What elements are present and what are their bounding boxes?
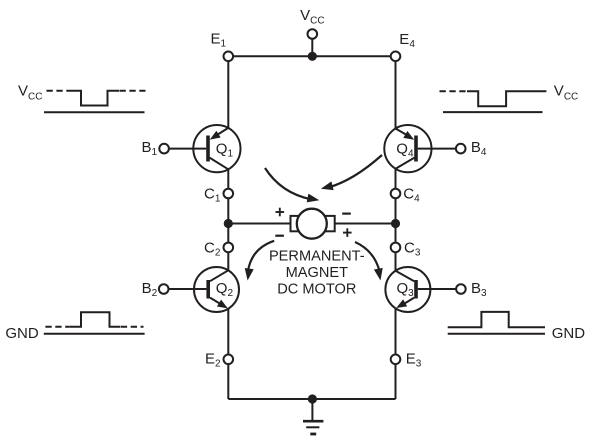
wire E2 to bottom rail [227,364,229,399]
wire top rail [233,55,391,57]
wire motor right [335,223,396,225]
transistor Q3 [385,267,430,312]
wire C2 to Q2 [227,252,229,270]
waveform VCC top-right pulse [467,91,546,106]
svg-text:E3: E3 [406,350,422,369]
wire E4 to Q4 [395,61,397,128]
svg-text:C2: C2 [204,239,221,258]
svg-text:Q1: Q1 [216,140,234,159]
waveform VCC top-left dashed high left [47,90,73,92]
waveform VCC top-right dashed high left [440,90,468,92]
svg-text:GND: GND [5,325,39,342]
waveform GND bottom-left baseline [44,333,145,335]
terminal B3 [456,284,466,294]
transistor Q2 [194,267,239,312]
wire C3 to Q3 [395,252,397,271]
wire Q4 to C4 [395,169,397,189]
waveform VCC top-left pulse [72,91,119,106]
svg-text:B1: B1 [142,139,158,158]
wire C1 to node A [227,198,229,223]
waveform GND bottom-left dashed low left [45,326,69,328]
waveform VCC top-left baseline [44,111,145,113]
wire ground stub [311,399,313,420]
terminal VCC [308,29,318,39]
wire base B2 [169,288,207,290]
arrow arc top-left flow [265,168,311,199]
wire bottom rail [228,398,395,400]
waveform GND bottom-left pulse [70,312,121,327]
motor brush left [291,216,301,231]
terminal B2 [159,284,169,294]
wire base B3 [418,288,456,290]
arrow arc top-right flow [329,155,382,187]
terminal E3 [391,355,401,365]
ground [303,421,323,434]
wire E1 to Q1 [227,61,229,128]
svg-text:VCC: VCC [554,83,578,103]
motor brush right [325,216,335,231]
svg-text:E1: E1 [211,31,227,50]
wire motor left [228,223,290,225]
motor M1 body [297,209,327,239]
terminal B1 [159,144,169,154]
svg-text:Q2: Q2 [216,280,234,299]
svg-text:C3: C3 [404,239,421,258]
label plus bottom-right [343,228,352,237]
terminal E1 [224,52,234,62]
junction node B motor right [391,219,400,228]
junction bottom rail [308,394,317,403]
terminal B4 [456,144,466,154]
transistor Q1 [193,125,240,172]
svg-text:C4: C4 [403,186,420,205]
svg-text:PERMANENT-: PERMANENT- [269,249,365,265]
waveform VCC top-right baseline [443,111,543,113]
svg-text:DC MOTOR: DC MOTOR [277,281,356,297]
wire Q1 to C1 [227,169,229,188]
svg-text:E4: E4 [399,31,415,50]
wire VCC stub [311,39,313,57]
waveform GND bottom-left dashed low right [121,326,144,328]
terminal C3 [391,243,401,253]
svg-text:Q4: Q4 [396,140,414,159]
svg-text:B4: B4 [471,139,487,158]
svg-text:C1: C1 [204,186,221,205]
terminal E4 [391,52,401,62]
svg-text:VCC: VCC [18,83,42,103]
arrow arc bottom-right flow [355,242,380,271]
label minus bottom-left [275,235,284,237]
waveform GND bottom-right pulse [448,312,545,327]
terminal C1 [224,189,234,199]
arrow arc bottom-left flow [248,241,274,271]
wire Q2 to E2 [227,309,229,355]
terminal E2 [224,355,234,365]
transistor Q4 [384,125,431,172]
svg-text:Q3: Q3 [397,280,415,299]
waveform VCC top-left dashed high right [120,90,146,92]
junction node A motor left [224,219,233,228]
terminal C2 [224,243,234,253]
svg-text:E2: E2 [205,350,221,369]
junction top rail [308,52,317,61]
wire node B to C3 [395,224,397,243]
waveform GND bottom-right baseline [448,333,545,335]
wire base B4 [418,148,456,150]
terminal C4 [391,189,401,199]
label minus top-right [342,213,351,215]
wire Q3 to E3 [395,308,397,354]
wire node A to C2 [227,224,229,243]
svg-text:VCC: VCC [300,7,324,27]
svg-text:B2: B2 [142,280,158,299]
label plus top-left [276,208,285,217]
svg-text:MAGNET: MAGNET [286,265,349,281]
wire E3 to bottom rail [395,364,397,399]
svg-text:GND: GND [552,325,586,342]
wire base B1 [169,148,206,150]
svg-text:B3: B3 [471,280,487,299]
wire C4 to node B [395,198,397,223]
